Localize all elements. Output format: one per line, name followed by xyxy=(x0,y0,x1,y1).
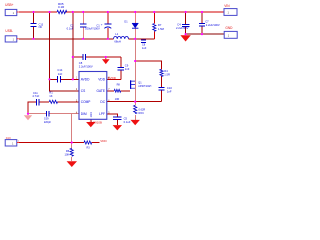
connector USB+ xyxy=(5,9,17,15)
IC pin names xyxy=(81,78,106,118)
wire GATE pin7 xyxy=(107,90,130,92)
svg-text:2.2uF/50V: 2.2uF/50V xyxy=(176,26,189,30)
wire AVDD branch xyxy=(72,12,74,79)
transistor Q1 xyxy=(130,80,132,89)
resistor R8 xyxy=(114,89,120,92)
capacitor C8 xyxy=(141,40,146,42)
svg-text:COMP: COMP xyxy=(81,100,91,104)
svg-text:1.5M: 1.5M xyxy=(158,27,165,31)
wire C1 branch xyxy=(107,12,109,39)
svg-text:R7: R7 xyxy=(158,23,162,27)
ground VDD bypass xyxy=(105,57,107,59)
wire R7 branch xyxy=(153,12,155,39)
wire VDD bypass xyxy=(73,57,121,79)
svg-text:220pF: 220pF xyxy=(44,121,52,124)
svg-text:USB+: USB+ xyxy=(5,3,14,7)
op-amp U1 box xyxy=(79,72,107,120)
svg-text:C14: C14 xyxy=(57,68,62,72)
capacitor C1 polarized xyxy=(104,23,111,25)
svg-text:R6: R6 xyxy=(66,149,70,153)
svg-text:0.1uF: 0.1uF xyxy=(67,27,74,31)
svg-text:C8: C8 xyxy=(79,61,83,65)
ground IC xyxy=(86,122,95,127)
svg-text:C4: C4 xyxy=(177,22,181,26)
svg-text:0.1R: 0.1R xyxy=(58,5,65,9)
wire DC pin6 xyxy=(107,101,162,103)
resistor R3 xyxy=(84,141,92,144)
wire source drop xyxy=(134,102,136,106)
capacitor C7 xyxy=(199,24,205,26)
inductor L1 xyxy=(114,37,129,39)
svg-text:VDD: VDD xyxy=(100,139,107,143)
connector USB- xyxy=(5,36,17,42)
svg-text:100uF/100V: 100uF/100V xyxy=(85,27,100,31)
capacitor C13 xyxy=(30,24,36,27)
pin numbers xyxy=(76,78,110,115)
svg-text:DC: DC xyxy=(100,100,105,104)
wire switch node xyxy=(135,61,161,69)
wire IC gnd pin xyxy=(90,119,92,122)
svg-text:D1: D1 xyxy=(124,20,128,23)
svg-text:GATE: GATE xyxy=(97,89,105,93)
wire COMP pin3 xyxy=(28,102,79,114)
svg-text:1nF: 1nF xyxy=(125,67,130,71)
connector GND xyxy=(224,31,237,38)
wire BVDD pin8 xyxy=(107,78,121,80)
node dots xyxy=(27,11,203,144)
ground ROC xyxy=(131,120,140,125)
wire LPF pin5 xyxy=(107,114,118,117)
svg-text:C10: C10 xyxy=(167,86,172,90)
svg-text:HV9910B: HV9910B xyxy=(90,120,102,124)
svg-text:AP40T10GH: AP40T10GH xyxy=(138,85,151,88)
svg-text:R4: R4 xyxy=(164,69,168,73)
capacitor C14 xyxy=(58,76,61,82)
svg-text:VDD: VDD xyxy=(98,78,105,82)
svg-text:NC: NC xyxy=(39,26,43,29)
ground C4 xyxy=(180,35,190,41)
diode D1 xyxy=(132,23,138,28)
wire CS branch xyxy=(50,12,80,91)
wire DIM drop xyxy=(71,114,73,149)
svg-text:10R: 10R xyxy=(115,98,120,101)
svg-text:C9: C9 xyxy=(125,63,129,67)
capacitor C2 xyxy=(80,24,86,27)
svg-text:0.1uF: 0.1uF xyxy=(124,120,131,124)
wire R6 to ground xyxy=(71,157,73,161)
svg-text:C8: C8 xyxy=(142,42,146,46)
wire GND to connector xyxy=(186,33,224,35)
ground C5 xyxy=(113,125,122,130)
svg-text:2.2uF/100V: 2.2uF/100V xyxy=(206,23,220,27)
connector VIN xyxy=(224,9,237,16)
ground COMP pale xyxy=(27,114,29,116)
svg-text:1nF: 1nF xyxy=(58,72,63,76)
resistor R7 xyxy=(153,24,156,32)
svg-text:0.62R: 0.62R xyxy=(139,109,146,112)
capacitor C10 xyxy=(158,87,164,90)
wire dim bottom xyxy=(19,142,100,144)
wire drain stub xyxy=(134,39,136,102)
svg-text:1nF: 1nF xyxy=(167,89,172,93)
svg-text:L1: L1 xyxy=(115,32,118,36)
wire VIN top rail xyxy=(19,11,224,13)
wire C7 branch xyxy=(201,12,203,34)
svg-text:C5: C5 xyxy=(124,117,128,121)
wire C09 net xyxy=(28,113,79,115)
svg-text:68uH: 68uH xyxy=(114,40,120,44)
wire return rail xyxy=(19,39,155,40)
resistor R05 xyxy=(57,10,67,13)
svg-text:1.5R: 1.5R xyxy=(164,72,170,76)
wire C2 branch xyxy=(82,12,84,39)
svg-text:1uF: 1uF xyxy=(142,46,147,50)
wire C4 branch xyxy=(185,12,187,34)
svg-text:4.7nF: 4.7nF xyxy=(32,94,39,98)
svg-text:C7: C7 xyxy=(205,20,209,24)
svg-text:DIM: DIM xyxy=(81,112,87,116)
resistor R6 xyxy=(70,148,73,156)
svg-text:Ctrl: Ctrl xyxy=(6,136,11,140)
capacitor C9 xyxy=(118,67,124,70)
resistor R1 xyxy=(49,100,57,103)
svg-text:Q1: Q1 xyxy=(138,81,142,84)
svg-text:AVDD: AVDD xyxy=(81,78,90,82)
capacitor C6 xyxy=(83,54,86,60)
wire snubber mid xyxy=(161,76,163,101)
svg-text:2.2uF/100V: 2.2uF/100V xyxy=(79,64,93,68)
svg-text:R8: R8 xyxy=(117,83,121,86)
svg-text:CS: CS xyxy=(81,89,85,93)
resistor R4 xyxy=(160,69,163,76)
svg-text:10K: 10K xyxy=(65,152,70,156)
capacitor C09 xyxy=(46,111,49,117)
ground R6 xyxy=(67,161,77,167)
svg-text:1K: 1K xyxy=(49,94,52,98)
svg-text:+: + xyxy=(101,22,103,26)
svg-text:VIN: VIN xyxy=(224,4,230,8)
resistor ROC xyxy=(134,105,137,113)
wire Rcs to ground xyxy=(134,115,136,120)
wire C5 to ground xyxy=(116,119,118,125)
capacitor C5 xyxy=(113,117,122,120)
svg-text:GND: GND xyxy=(225,26,233,30)
svg-text:R3: R3 xyxy=(87,146,91,149)
svg-text:USB-: USB- xyxy=(5,29,13,33)
capacitor C4 xyxy=(182,25,190,27)
connector pin 1 marks xyxy=(12,12,230,146)
wire diode branch xyxy=(134,12,136,39)
wire C13 branch xyxy=(33,12,35,39)
capacitor C11 xyxy=(37,99,39,105)
svg-text:ROC: ROC xyxy=(139,112,145,115)
svg-text:LPF: LPF xyxy=(99,112,105,116)
connector Ctrl xyxy=(5,140,17,146)
svg-text:GND: GND xyxy=(90,112,93,118)
wire AVDD pin1 xyxy=(50,78,80,80)
